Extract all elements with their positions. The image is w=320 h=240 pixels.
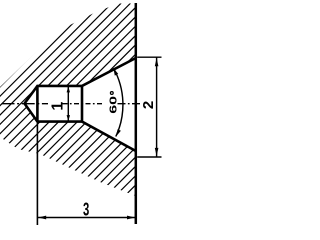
- svg-text:2: 2: [140, 101, 157, 109]
- svg-text:1: 1: [49, 102, 66, 111]
- dimension 3 arrow right: [127, 216, 135, 220]
- dimension 2 line: [156, 57, 158, 157]
- svg-text:3: 3: [83, 200, 90, 221]
- surface line (right face): [135, 3, 138, 224]
- dimension 1 arrow down: [67, 115, 70, 121]
- svg-text:60: 60: [107, 96, 119, 114]
- dimension 2 arrow up: [155, 58, 159, 66]
- arc arrow bottom: [116, 129, 121, 137]
- arc arrow top: [113, 68, 118, 76]
- extension line left (from bore bottom corner): [36, 122, 38, 225]
- dimension 1 arrow up: [67, 86, 70, 92]
- centerline (dash-dot axis): [2, 103, 141, 105]
- dimension 3 arrow left: [38, 216, 46, 220]
- extension line bottom right: [137, 156, 161, 158]
- dimension 3 line: [37, 217, 135, 219]
- degree symbol: [110, 92, 113, 95]
- dimension 2 arrow down: [155, 148, 159, 156]
- hole outline (drill point, bore, countersink cone): [25, 58, 136, 151]
- dimension 1 line: [67, 86, 69, 122]
- angle arc 60 deg: [114, 68, 123, 136]
- extension line top right: [137, 56, 161, 58]
